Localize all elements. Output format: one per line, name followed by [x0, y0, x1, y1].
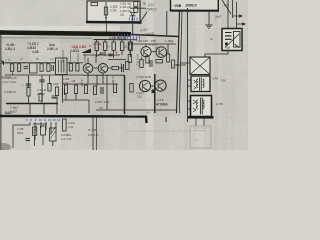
resistor R5 — [40, 64, 43, 72]
T2 marks — [193, 100, 196, 112]
wire — [96, 40, 98, 43]
wire — [75, 94, 77, 101]
block box transformer T1 — [191, 76, 210, 92]
wire riser wedge — [84, 53, 86, 63]
svg-text:−20В: −20В — [222, 3, 229, 7]
svg-text:−20В: −20В — [173, 4, 182, 8]
wire lower rail extension — [83, 74, 124, 76]
left scan edge — [0, 30, 2, 150]
svg-text:−14ДВ: −14ДВ — [80, 78, 84, 87]
wire — [232, 0, 234, 18]
wire — [34, 136, 36, 147]
T1 stub — [188, 85, 192, 87]
resistor R23 — [130, 84, 133, 93]
ground — [206, 25, 213, 29]
junction dots bus — [7, 62, 54, 63]
wire — [106, 75, 108, 110]
wire — [102, 73, 104, 84]
svg-text:1-ПВ 12к 1Д: 1-ПВ 12к 1Д — [109, 36, 127, 40]
resistor R19 — [74, 85, 77, 94]
wire — [93, 67, 98, 69]
capacitor C7 — [150, 60, 152, 67]
bus thick — [6, 103, 58, 105]
svg-text:ЦВ: ЦВ — [226, 46, 230, 50]
resistor R6 — [47, 64, 50, 72]
block box antenna X (crossed) — [190, 57, 210, 75]
resistor R11b — [128, 55, 131, 63]
wire — [167, 44, 169, 54]
resistor R40 — [39, 94, 42, 102]
capacitor C11 — [101, 87, 103, 94]
capacitor C6 — [122, 64, 124, 72]
wire — [29, 104, 31, 115]
transistor VT1 internals — [86, 66, 91, 72]
wire riser — [95, 55, 97, 63]
pin numbers (blue) — [26, 118, 60, 122]
amplifier unit top border (thick) — [0, 33, 131, 35]
switch inner frame — [234, 32, 241, 48]
wire main bus — [5, 62, 56, 64]
svg-text:БАО: БАО — [5, 111, 12, 115]
svg-text:2⁄ЛЗ: 2⁄ЛЗ — [213, 77, 219, 81]
svg-text:13: 13 — [53, 118, 56, 122]
transistor VT4 — [156, 47, 167, 58]
junction dot — [121, 39, 123, 41]
component box X1 — [41, 126, 46, 135]
faint lower box — [190, 126, 211, 148]
paper background — [0, 0, 248, 150]
wire — [12, 73, 14, 76]
arrow mark — [98, 53, 102, 56]
X stub — [180, 62, 190, 64]
wire — [121, 40, 123, 42]
svg-text:14: 14 — [57, 118, 60, 122]
transistor VT5 internals — [143, 83, 148, 90]
T1 stub — [188, 79, 192, 81]
capacitor C22 — [52, 96, 57, 98]
svg-text:12: 12 — [48, 118, 51, 122]
svg-text:2-П7 7П2: 2-П7 7П2 — [136, 54, 140, 66]
wire trunk — [154, 74, 156, 113]
wire — [113, 50, 115, 58]
block box label (-20V 2000,0) — [171, 0, 219, 10]
border corner stub — [145, 116, 148, 123]
capacitor C21 — [108, 54, 112, 56]
transistor VT2 — [98, 64, 108, 74]
wire — [151, 51, 156, 53]
resistor R15 — [172, 60, 175, 68]
wire — [65, 94, 67, 101]
svg-text:2-ВС-4: 2-ВС-4 — [47, 47, 58, 51]
wire — [52, 141, 54, 146]
wire link — [33, 123, 47, 125]
amplifier unit bottom border (thick) — [0, 115, 147, 118]
wire out right — [176, 64, 186, 66]
svg-text:ЗЧ ПВ.: ЗЧ ПВ. — [88, 128, 97, 132]
wire — [129, 50, 131, 55]
T1 core bars — [199, 78, 201, 91]
node A junction dot — [105, 17, 107, 19]
resistor R18 — [64, 85, 67, 94]
wire rail mid — [63, 83, 118, 85]
wire — [128, 43, 176, 45]
svg-text:2-В14: 2-В14 — [70, 49, 79, 53]
capacitor C4 — [24, 67, 29, 69]
svg-text:220: 220 — [137, 95, 142, 99]
transistor VT3 — [141, 47, 151, 57]
svg-text:≤1: ≤1 — [195, 138, 199, 142]
wire rail (bias network) — [94, 39, 138, 41]
wire — [96, 109, 176, 111]
wire lower rail — [5, 74, 83, 76]
resistor R17 — [55, 87, 58, 96]
faint scan line — [124, 130, 190, 132]
svg-text:2,2к: 2,2к — [68, 125, 74, 129]
wire — [166, 11, 168, 36]
wire through T2 bottom — [196, 119, 204, 127]
capacitor C12 — [26, 139, 30, 141]
wire pin12 down — [55, 122, 57, 129]
transistor VT4 internals — [159, 49, 164, 56]
svg-text:1Н: 1Н — [146, 111, 149, 115]
capacitor C5 — [52, 65, 54, 71]
wire — [130, 40, 132, 42]
wire — [108, 67, 112, 69]
bottom-left corner smudge — [0, 143, 11, 151]
svg-text:⁓3,1В: ⁓3,1В — [92, 42, 102, 46]
wire — [104, 40, 106, 43]
resistor R20 — [84, 85, 87, 94]
svg-text:2000,0: 2000,0 — [185, 4, 197, 8]
svg-text:⁓В: ⁓В — [70, 79, 75, 83]
svg-text:7-П9 ⁄П42Б: 7-П9 ⁄П42Б — [136, 75, 151, 79]
box IF filter — [30, 63, 38, 73]
component box X2 — [50, 128, 57, 141]
wire — [62, 75, 64, 103]
top box thick bottom border — [86, 21, 142, 24]
wire pin8 down — [34, 122, 36, 140]
wire — [104, 50, 106, 56]
wire — [96, 50, 98, 57]
component box X0 hatch — [33, 126, 37, 134]
svg-text:2-В2-2: 2-В2-2 — [5, 47, 15, 51]
svg-text:2000,0: 2000,0 — [145, 7, 156, 11]
wire pin11 down — [50, 122, 52, 134]
wire — [96, 75, 98, 86]
wire box A to box B — [205, 51, 228, 58]
transistor VT2 internals — [101, 66, 106, 72]
svg-text:1,5к: 1,5к — [110, 9, 117, 13]
svg-text:2-8 4,1Г: 2-8 4,1Г — [88, 133, 99, 137]
arrow out 2 — [237, 23, 245, 25]
switch mark — [225, 43, 228, 46]
wire rail — [187, 8, 189, 122]
wire — [108, 59, 126, 61]
resistor R13b — [146, 56, 149, 63]
wire — [28, 96, 30, 103]
svg-text:2В: 2В — [143, 2, 146, 6]
svg-text:Зч Р: Зч Р — [215, 15, 222, 19]
resistor R32 — [112, 42, 115, 50]
wire — [96, 118, 98, 151]
T2 thick bottom — [188, 116, 214, 119]
T2 right coil — [203, 100, 205, 109]
main block right border (double line) — [177, 11, 180, 113]
wire — [132, 16, 134, 35]
main block right border inner — [179, 11, 182, 113]
wire from box down — [208, 12, 210, 26]
wire — [105, 2, 107, 22]
svg-text:2Д: 2Д — [124, 46, 127, 49]
wire riser a — [62, 50, 64, 63]
svg-text:0у: 0у — [210, 37, 214, 41]
wire — [42, 135, 44, 145]
svg-text:2-З 4,4Г: 2-З 4,4Г — [61, 137, 72, 141]
capacitor C8 — [26, 84, 31, 86]
resistor R8 — [69, 64, 72, 72]
stub below border — [165, 117, 167, 122]
wire — [145, 44, 147, 47]
wire — [121, 50, 123, 55]
svg-text:1-Я9Д: 1-Я9Д — [165, 39, 173, 43]
T2 core bars — [200, 98, 202, 115]
resistor R41 — [48, 84, 51, 92]
svg-text:2-4ДР: 2-4ДР — [37, 92, 45, 96]
wire — [227, 0, 229, 29]
T2 stub — [188, 100, 191, 102]
T2 left coil — [197, 100, 199, 109]
wire — [67, 62, 83, 64]
capacitor C20 — [100, 53, 104, 55]
component box X2 hatch — [50, 127, 56, 139]
wire — [49, 75, 51, 83]
block box transformer T2 — [191, 96, 212, 117]
resistor R33 — [121, 42, 124, 50]
node dot red — [89, 45, 91, 47]
wire — [124, 75, 126, 114]
amplifier unit top border thin continuation — [131, 35, 179, 37]
pin ticks row 1 (blue) — [130, 18, 138, 21]
arrow out 1 — [233, 15, 242, 17]
border echo line — [0, 37, 92, 39]
wire to border — [106, 24, 108, 32]
transistor VT3 internals — [144, 49, 149, 55]
resistor R16 — [27, 88, 30, 97]
resistor R21 — [93, 86, 96, 95]
wire — [130, 50, 132, 57]
capacitor C9 — [39, 80, 44, 82]
wire riser c — [77, 53, 79, 63]
wire — [28, 75, 30, 87]
svg-text:7-ВЗ 15П: 7-ВЗ 15П — [136, 39, 148, 43]
resistor R1 — [91, 3, 98, 6]
resistor R12 — [140, 60, 143, 68]
block box SV (switch unit) — [222, 29, 242, 51]
T2 stub — [188, 108, 191, 110]
switch contacts inside — [225, 33, 232, 40]
resistor R9 horizontal — [112, 67, 119, 70]
junction square — [152, 90, 156, 94]
component box X0 — [33, 127, 37, 136]
resistor R8b — [76, 64, 79, 72]
T1 right coil — [203, 79, 204, 87]
wire — [113, 40, 115, 42]
resistor R2 — [104, 7, 107, 15]
svg-text:2-П8Л: 2-П8Л — [111, 76, 115, 84]
resistor R30 — [95, 42, 98, 50]
wire — [141, 57, 143, 60]
T1 marks — [194, 80, 197, 89]
transistor VT6 internals — [158, 82, 163, 89]
tiny fragments — [8, 56, 86, 62]
wire top link — [83, 54, 120, 56]
transistor VT6 — [155, 80, 166, 91]
junction dot — [104, 39, 106, 41]
resistor R4 — [18, 64, 21, 72]
resistor R27 — [134, 2, 138, 7]
svg-text:АГ809А: АГ809А — [156, 103, 168, 107]
capacitor C10 — [63, 88, 65, 95]
wire pin7 down — [13, 122, 30, 148]
pin ticks row 2 (blue) — [119, 34, 140, 40]
wire — [236, 2, 238, 29]
switch diagonal — [225, 34, 239, 48]
resistor R13 — [156, 60, 163, 63]
wire diagonal — [222, 0, 231, 14]
svg-text:З-У9: З-У9 — [157, 98, 164, 102]
transistor VT5 — [139, 80, 150, 91]
svg-text:150: 150 — [221, 79, 226, 83]
dust speckles — [4, 10, 240, 147]
resistor R34 — [129, 42, 132, 50]
wire L-run — [63, 100, 89, 113]
resistor R14 — [167, 54, 170, 62]
svg-text:1М: 1М — [99, 106, 103, 110]
coil L1 marks — [59, 60, 64, 73]
transistor VT1 — [83, 64, 93, 74]
resistor R28 — [134, 8, 138, 13]
wire — [41, 75, 43, 103]
wire diagonal lead of C3 — [139, 12, 147, 24]
wire — [87, 73, 89, 84]
X diagonals — [191, 58, 210, 75]
wire — [119, 67, 125, 69]
resistor R3 — [11, 64, 14, 72]
input terminal — [1, 60, 5, 65]
wedge mark — [81, 49, 91, 54]
diode D1 — [130, 13, 136, 16]
wire — [130, 7, 146, 9]
wire pin9 down — [40, 122, 42, 128]
svg-text:2-П⁄6: 2-П⁄6 — [216, 102, 223, 106]
svg-text:2-АЗВ 5к: 2-АЗВ 5к — [4, 90, 17, 94]
resistor R11 — [128, 42, 131, 50]
svg-text:2Д: 2Д — [120, 12, 124, 16]
svg-text:10: 10 — [39, 118, 42, 122]
wire between — [151, 85, 155, 87]
wire — [56, 96, 58, 115]
wire — [92, 118, 94, 151]
resistor R24 hatched — [63, 119, 67, 131]
svg-text:2-4П7 10,5: 2-4П7 10,5 — [95, 100, 110, 104]
resistor R22 — [113, 84, 116, 93]
scanner streaks — [92, 36, 104, 150]
svg-text:4,38: 4,38 — [32, 50, 39, 54]
block box U-top (tone control unit) — [87, 1, 140, 22]
resistor R31 — [104, 42, 107, 50]
svg-text:500Г: 500Г — [17, 131, 24, 135]
node dot red — [116, 52, 118, 54]
wire — [43, 104, 45, 115]
svg-text:2-4С7 10м: 2-4С7 10м — [2, 80, 16, 84]
T1 left coil — [197, 79, 198, 87]
wire riser VT1 — [87, 58, 89, 64]
resistor R10 — [126, 62, 129, 70]
wire riser b — [70, 52, 72, 63]
coil box L1 — [56, 58, 68, 75]
wire pin10 down — [45, 122, 47, 130]
